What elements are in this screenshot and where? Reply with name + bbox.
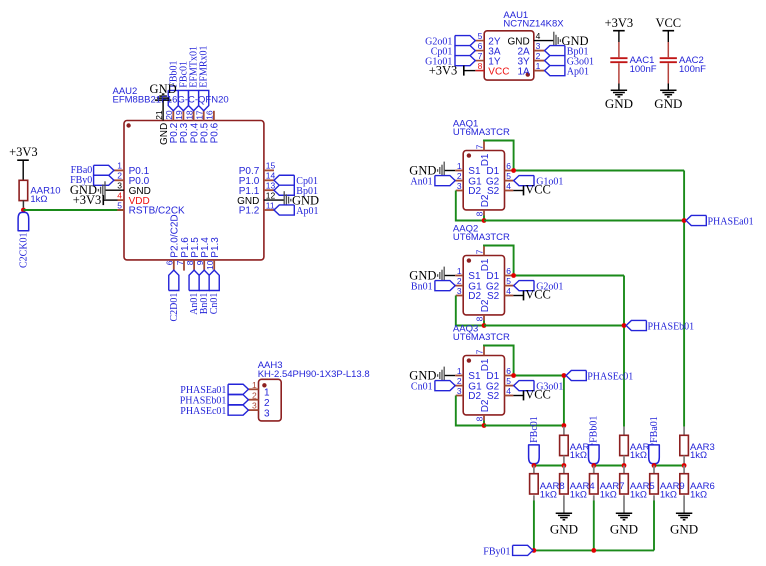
svg-text:3: 3 <box>117 181 122 191</box>
svg-text:20: 20 <box>164 110 174 120</box>
svg-text:5: 5 <box>506 276 511 286</box>
wire AAQ3 pin7 to drain node <box>484 346 514 376</box>
capacitor AAC2 100nF <box>660 42 706 84</box>
svg-text:5: 5 <box>506 376 511 386</box>
power VCC at AAQ2 pin4 <box>505 288 551 302</box>
label AAH3 value KH-2.54PH90-1X3P-L13.8 <box>258 369 370 380</box>
svg-text:4: 4 <box>536 31 541 41</box>
svg-text:GND: GND <box>670 521 698 536</box>
svg-text:8: 8 <box>185 260 195 265</box>
svg-text:4: 4 <box>506 386 511 396</box>
svg-text:GND: GND <box>409 368 436 382</box>
global label EFMTx01 (pin18) <box>189 46 200 111</box>
label AAR2 name+value <box>630 442 655 461</box>
svg-text:C2CK01: C2CK01 <box>18 232 29 268</box>
AAQ1 inside pin names S1 G1 D2 D1 G2 S2 <box>468 153 499 207</box>
wire divider to FBy bus <box>653 495 655 550</box>
node PHASEa01 junction <box>682 218 687 223</box>
global label Ap01 (pin11) <box>274 205 319 217</box>
svg-text:4: 4 <box>506 181 511 191</box>
power GND at AAQ3 pin1 <box>409 367 463 385</box>
AAQ2 pin8 stub <box>483 315 485 326</box>
svg-text:An01: An01 <box>410 177 432 188</box>
label AAQ2 value UT6MA3TCR <box>453 232 510 243</box>
node PHASEc01 junction at tag <box>562 373 567 378</box>
global label Bp01 (AAU1 pin3) <box>545 46 589 58</box>
power +3V3 at AAU1 pin8 <box>429 63 476 77</box>
label AAQ3 refdes <box>453 324 478 335</box>
net port PHASEb01 (right) <box>626 320 694 332</box>
mcu U-AAU2 EFM8BB21F16G-C-QFN20 body <box>124 121 264 260</box>
label AAR5 name+value <box>630 481 655 500</box>
svg-text:1: 1 <box>117 161 122 171</box>
svg-text:2: 2 <box>536 51 541 61</box>
svg-text:14: 14 <box>266 171 276 181</box>
node divider junction <box>562 463 567 468</box>
wire FBy01 bottom bus <box>534 549 654 551</box>
net port FBy01 <box>483 545 533 557</box>
label AAR7 name+value <box>600 481 625 500</box>
svg-text:P1.2: P1.2 <box>239 206 260 217</box>
AAU2 left pins 1-5 stubs+numbers+names <box>103 161 185 217</box>
svg-text:EFMRx01: EFMRx01 <box>199 45 210 87</box>
svg-text:Ap01: Ap01 <box>296 206 318 217</box>
svg-text:VCC: VCC <box>655 16 681 30</box>
wire AAQ3 pin6 drain run <box>505 375 564 377</box>
svg-text:5: 5 <box>478 31 483 41</box>
svg-text:VCC: VCC <box>488 66 509 77</box>
AAH3 pins 1-3 stubs+numbers <box>248 380 270 420</box>
global label G1o01 (AAU1 pin7) <box>425 56 475 68</box>
svg-text:GND: GND <box>550 521 578 536</box>
svg-text:GND: GND <box>610 521 638 536</box>
svg-text:1kΩ: 1kΩ <box>690 490 707 501</box>
svg-text:D1: D1 <box>480 358 491 371</box>
svg-text:FBa01: FBa01 <box>649 416 660 443</box>
svg-text:VCC: VCC <box>525 388 551 402</box>
label AAU1 refdes <box>503 10 528 21</box>
node AAQ3 pin8 junction <box>482 423 487 428</box>
AAQ3 pin numbers <box>457 349 511 421</box>
global label G3o01 (AAQ3 pin5) <box>505 381 564 393</box>
global label PHASEb01 (AAH3 pin2) <box>180 395 249 407</box>
svg-text:GND: GND <box>150 82 177 96</box>
net port PHASEa01 (right) <box>686 215 754 227</box>
svg-text:17: 17 <box>195 110 205 120</box>
svg-text:UT6MA3TCR: UT6MA3TCR <box>453 232 510 243</box>
svg-text:5: 5 <box>117 200 122 210</box>
wire AAQ2 pin7 to drain node <box>484 246 514 276</box>
svg-text:6: 6 <box>165 260 175 265</box>
svg-text:GND: GND <box>605 96 633 111</box>
svg-text:NC7NZ14K8X: NC7NZ14K8X <box>503 19 564 30</box>
global label G2o01 (AAU1 pin5) <box>425 36 475 48</box>
svg-text:2: 2 <box>264 398 270 409</box>
svg-text:P0.6: P0.6 <box>210 122 221 143</box>
global label PHASEa01 (AAH3 pin1) <box>180 384 248 396</box>
power GND at AAU2 pin21 <box>150 82 177 121</box>
svg-text:6: 6 <box>506 266 511 276</box>
resistor AAR2 1k body <box>620 427 629 466</box>
wire PHASEc01 vertical run <box>563 376 565 427</box>
global label Ap01 (AAU1 pin1) <box>545 66 589 78</box>
svg-text:12: 12 <box>266 190 276 200</box>
capacitor AAC1 100nF <box>610 42 656 84</box>
AAU2 top pins 21-16 stubs+numbers+names <box>154 110 221 145</box>
svg-text:6: 6 <box>506 161 511 171</box>
wire divider mid bus c <box>534 465 564 467</box>
power GND (divider bottom) <box>550 495 578 536</box>
svg-text:1kΩ: 1kΩ <box>540 490 557 501</box>
label AAR8 name+value <box>540 481 565 500</box>
node FBy01 junction 1 <box>532 548 537 553</box>
svg-text:3: 3 <box>264 408 270 419</box>
svg-text:+3V3: +3V3 <box>9 145 38 159</box>
svg-text:Bn01: Bn01 <box>411 282 433 293</box>
resistor AAR7 1k body <box>590 466 599 495</box>
resistor AAR9 1k body <box>650 466 659 495</box>
power GND at AAU2 pin3 <box>70 181 105 199</box>
svg-text:Cn01: Cn01 <box>411 382 433 393</box>
global label G1o01 (AAQ1 pin5) <box>505 176 564 188</box>
label AAQ3 value UT6MA3TCR <box>453 332 510 343</box>
global label EFMRx01 (pin17) <box>199 45 210 110</box>
global label FBc01 (pin19) <box>178 61 189 111</box>
label AAU2 value EFM8BB21F16G-C-QFN20 <box>113 95 229 106</box>
svg-text:1kΩ: 1kΩ <box>660 490 677 501</box>
resistor AAR5 1k body <box>620 466 629 495</box>
AAU2 right pins 15-11 stubs+numbers+names <box>237 161 275 217</box>
svg-text:9: 9 <box>195 260 205 265</box>
svg-text:2: 2 <box>457 376 462 386</box>
power VCC at AAQ3 pin4 <box>505 388 551 402</box>
power GND (divider bottom) <box>610 495 638 536</box>
net port C2CK01 <box>18 212 29 268</box>
svg-text:5: 5 <box>506 171 511 181</box>
wire AAQ2 pin3 to pin8 loop <box>456 296 484 326</box>
svg-text:10: 10 <box>205 260 215 270</box>
svg-text:1A: 1A <box>517 66 530 77</box>
node divider junction <box>652 463 657 468</box>
wire PHASEa01 vertical run <box>683 171 685 427</box>
svg-text:VCC: VCC <box>525 183 551 197</box>
wire AAQ1 pin3 to pin8 loop <box>456 191 484 221</box>
wire PHASEb01 vertical run <box>623 276 625 427</box>
global label G2o01 (AAQ2 pin5) <box>505 281 564 293</box>
wire AAQ1 pin7 to drain node <box>484 141 514 171</box>
AAQ1 pin numbers <box>457 144 511 216</box>
wire RSTB net to AAU2 pin5 <box>23 209 124 211</box>
svg-text:PHASEa01: PHASEa01 <box>180 385 226 396</box>
svg-text:1kΩ: 1kΩ <box>570 490 587 501</box>
global label Cp01 (AAU1 pin6) <box>431 46 476 58</box>
global label FBa0 (pin1) <box>71 165 114 176</box>
svg-text:1: 1 <box>264 388 270 399</box>
power GND (divider bottom) <box>670 495 698 536</box>
svg-text:D2: D2 <box>480 299 491 312</box>
node PHASEb01 junction <box>622 323 627 328</box>
svg-text:18: 18 <box>184 110 194 120</box>
svg-text:7: 7 <box>175 260 185 265</box>
svg-text:8: 8 <box>478 61 483 71</box>
node divider junction <box>591 463 596 468</box>
svg-text:100nF: 100nF <box>679 64 706 75</box>
node PHASEc01 junction at AAQ3 loop <box>562 423 567 428</box>
net port PHASEc01 (right) <box>566 370 633 382</box>
svg-text:KH-2.54PH90-1X3P-L13.8: KH-2.54PH90-1X3P-L13.8 <box>258 369 370 380</box>
svg-text:4: 4 <box>117 190 122 200</box>
power VCC at AAQ1 pin4 <box>505 183 551 197</box>
AAU1 left pins 5-8 stubs+numbers+names <box>475 31 509 77</box>
node AAQ2 pin8 junction <box>482 323 487 328</box>
svg-text:1: 1 <box>457 161 462 171</box>
svg-text:11: 11 <box>266 200 275 210</box>
svg-text:21: 21 <box>154 110 164 120</box>
AAQ2 pin numbers <box>457 249 511 321</box>
transistor Q-AAQ1 UT6MA3TCR body <box>463 151 504 210</box>
svg-text:Ap01: Ap01 <box>567 67 589 78</box>
wire AAQ3 pin3 to pin8 loop <box>456 396 484 426</box>
svg-text:PHASEc01: PHASEc01 <box>180 406 226 417</box>
label AAQ2 refdes <box>453 224 478 235</box>
wire AAQ3 phase bottom run <box>484 425 564 427</box>
node junction AAR10/C2CK <box>21 208 26 213</box>
transistor Q-AAQ2 UT6MA3TCR body <box>463 256 504 315</box>
svg-text:UT6MA3TCR: UT6MA3TCR <box>453 332 510 343</box>
svg-text:PHASEa01: PHASEa01 <box>708 216 754 227</box>
net port FBb01 (divider) <box>589 416 600 466</box>
svg-text:3: 3 <box>457 286 462 296</box>
svg-text:GND: GND <box>409 163 436 177</box>
label AAQ1 value UT6MA3TCR <box>453 127 510 138</box>
label AAR6 name+value <box>690 481 715 500</box>
svg-text:6: 6 <box>478 41 483 51</box>
svg-text:100nF: 100nF <box>630 64 657 75</box>
svg-text:3: 3 <box>536 41 541 51</box>
wire AAQ1 phase bottom run <box>484 220 684 222</box>
svg-text:GND: GND <box>654 96 682 111</box>
svg-text:+3V3: +3V3 <box>429 63 458 77</box>
power GND (AAC2 bottom) <box>654 84 682 112</box>
global label FBy0 (pin2) <box>70 175 114 186</box>
svg-text:13: 13 <box>266 181 276 191</box>
svg-text:D1: D1 <box>480 258 491 271</box>
node divider junction <box>682 463 687 468</box>
svg-text:2: 2 <box>457 276 462 286</box>
svg-text:D2: D2 <box>480 399 491 412</box>
wire divider mid bus b <box>594 465 624 467</box>
svg-text:1: 1 <box>536 61 541 71</box>
wire divider to FBy bus <box>533 495 535 550</box>
svg-text:1kΩ: 1kΩ <box>570 450 587 461</box>
svg-text:+3V3: +3V3 <box>605 16 634 30</box>
power GND (AAC1 bottom) <box>605 84 633 112</box>
svg-text:PHASEb01: PHASEb01 <box>648 321 695 332</box>
svg-text:1: 1 <box>457 266 462 276</box>
svg-text:+3V3: +3V3 <box>73 193 102 207</box>
svg-text:3: 3 <box>252 401 257 411</box>
svg-text:UT6MA3TCR: UT6MA3TCR <box>453 127 510 138</box>
svg-text:1kΩ: 1kΩ <box>600 490 617 501</box>
AAU2 bottom pins 6-10 stubs+numbers+names <box>165 214 221 270</box>
global label Cn01 (pin10, AAU2) <box>209 270 220 314</box>
svg-text:4: 4 <box>506 286 511 296</box>
power +3V3 (AAR10 top) <box>9 145 38 180</box>
global label Cp01 (pin14) <box>274 175 318 187</box>
node AAQ1 pin8 junction <box>482 218 487 223</box>
label AAQ1 refdes <box>453 119 478 130</box>
transistor Q-AAQ3 UT6MA3TCR body <box>463 356 504 415</box>
wire divider mid bus a <box>654 465 684 467</box>
label AAU1 value NC7NZ14K8X <box>503 19 564 30</box>
svg-text:1kΩ: 1kΩ <box>630 490 647 501</box>
svg-text:2: 2 <box>252 390 257 400</box>
node divider junction <box>622 463 627 468</box>
ic U-AAU1 NC7NZ14K8X body <box>484 31 534 80</box>
label AAU2 refdes <box>113 86 138 97</box>
resistor AAR1 1k body <box>560 427 569 466</box>
global label C2D01 (pin6) <box>169 270 180 321</box>
svg-text:C2D01: C2D01 <box>169 293 180 322</box>
svg-text:EFM8BB21F16G-C-QFN20: EFM8BB21F16G-C-QFN20 <box>113 95 229 106</box>
svg-text:FBy01: FBy01 <box>483 546 510 557</box>
svg-text:1: 1 <box>252 380 257 390</box>
global label Bp01 (pin13) <box>274 185 318 197</box>
svg-text:Cn01: Cn01 <box>209 293 220 315</box>
svg-text:1kΩ: 1kΩ <box>690 450 707 461</box>
connector J-AAH3 KH-2.54PH90-1X3P-L13.8 body <box>259 379 282 421</box>
svg-text:PHASEb01: PHASEb01 <box>180 396 227 407</box>
label AAH3 refdes <box>258 360 283 371</box>
svg-text:VCC: VCC <box>525 288 551 302</box>
svg-text:1kΩ: 1kΩ <box>630 450 647 461</box>
svg-text:6: 6 <box>506 366 511 376</box>
label AAR4 name+value <box>570 481 595 500</box>
global label Cn01 (AAQ3 pin2) <box>411 381 463 393</box>
svg-text:16: 16 <box>205 110 215 120</box>
power +3V3 at AAU2 pin4 <box>73 193 104 207</box>
svg-text:3: 3 <box>457 181 462 191</box>
svg-text:1: 1 <box>457 366 462 376</box>
node AAQ3 pin6 junction <box>511 373 516 378</box>
svg-text:FBc01: FBc01 <box>529 416 540 443</box>
svg-text:19: 19 <box>174 110 184 120</box>
svg-text:7: 7 <box>478 51 483 61</box>
label AAR3 name+value <box>690 442 715 461</box>
power GND at AAU1 pin4 <box>534 32 589 50</box>
svg-text:GND: GND <box>409 268 436 282</box>
wire AAQ2 pin6 drain run <box>505 275 625 277</box>
node FBy01 junction 2 <box>591 548 596 553</box>
power GND at AAQ1 pin1 <box>409 162 463 180</box>
global label PHASEc01 (AAH3 pin3) <box>180 405 248 417</box>
power +3V3 (AAC1 top) <box>605 16 634 42</box>
resistor AAR6 1k body <box>680 466 689 495</box>
label AAR9 name+value <box>660 481 685 500</box>
power GND at AAQ2 pin1 <box>409 267 463 285</box>
svg-text:P1.3: P1.3 <box>210 237 221 258</box>
svg-text:15: 15 <box>266 161 276 171</box>
AAU1 right pins 4-1 stubs+numbers+names <box>507 31 544 77</box>
power GND at AAU2 pin12 <box>264 191 319 209</box>
AAQ1 pin8 stub <box>483 210 485 221</box>
AAQ3 inside pin names S1 G1 D2 D1 G2 S2 <box>468 358 499 412</box>
svg-text:D2: D2 <box>480 194 491 207</box>
global label An01 (pin8, AAU2) <box>189 270 200 315</box>
svg-text:2: 2 <box>117 171 122 181</box>
AAQ2 inside pin names S1 G1 D2 D1 G2 S2 <box>468 258 499 312</box>
net port FBc01 (divider) <box>529 416 540 465</box>
node AAQ1 pin6 junction <box>511 168 516 173</box>
resistor AAR8 1k body <box>530 466 539 495</box>
global label G3o01 (AAU1 pin2) <box>545 56 594 68</box>
svg-text:2: 2 <box>457 171 462 181</box>
global label Bn01 (pin9, AAU2) <box>199 270 210 314</box>
wire divider to FBy bus <box>593 495 595 550</box>
resistor AAR10 <box>19 180 60 208</box>
wire AAQ1 pin6 drain run <box>505 170 685 172</box>
svg-text:1kΩ: 1kΩ <box>30 194 47 205</box>
resistor AAR3 1k body <box>680 427 689 466</box>
global label Bn01 (AAQ2 pin2) <box>411 281 463 293</box>
global label FBb01 (pin20) <box>168 60 179 110</box>
svg-text:3: 3 <box>457 386 462 396</box>
global label An01 (AAQ1 pin2) <box>410 176 463 188</box>
resistor AAR4 1k body <box>560 466 569 495</box>
svg-text:FBb01: FBb01 <box>589 416 600 443</box>
power VCC (AAC2 top) <box>655 16 681 42</box>
net port FBa01 (divider) <box>649 416 660 465</box>
label AAR1 name+value <box>570 442 595 461</box>
node divider junction <box>532 463 537 468</box>
node AAQ2 pin6 junction <box>511 273 516 278</box>
wire AAQ2 phase bottom run <box>484 325 624 327</box>
svg-text:D1: D1 <box>480 153 491 166</box>
svg-text:PHASEc01: PHASEc01 <box>587 371 633 382</box>
AAQ3 pin8 stub <box>483 415 485 426</box>
